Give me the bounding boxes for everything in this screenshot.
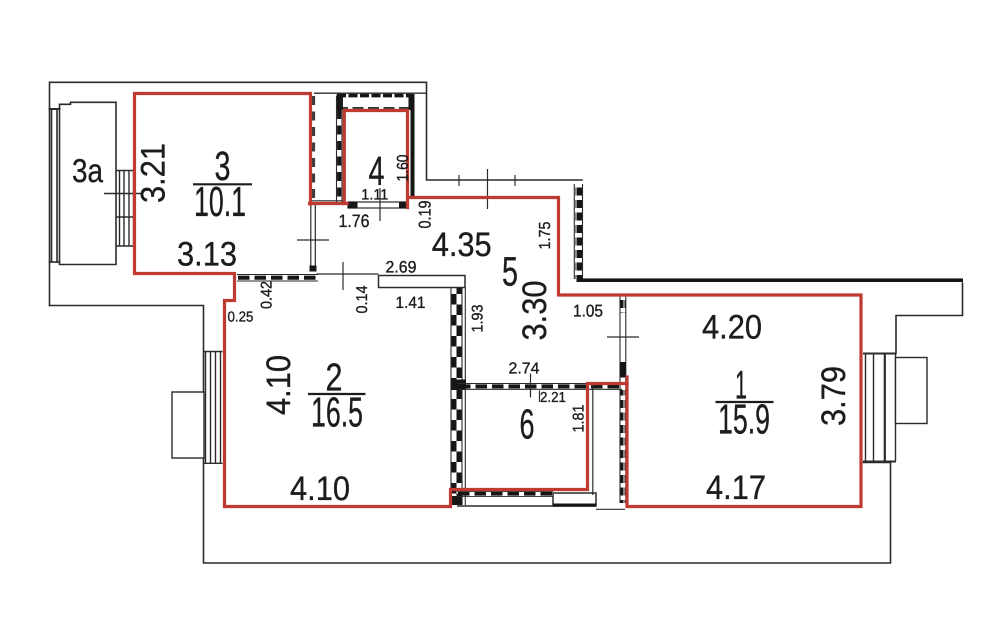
right wall window of room1	[863, 354, 927, 462]
svg-text:4.35: 4.35	[432, 226, 492, 264]
svg-text:1.75: 1.75	[537, 221, 554, 249]
hatched column left of room4	[337, 95, 344, 204]
svg-text:2.74: 2.74	[509, 361, 540, 378]
svg-text:0.42: 0.42	[258, 281, 275, 309]
dashed wall top of room2	[237, 275, 318, 282]
RED outlines	[135, 94, 862, 507]
svg-text:3a: 3a	[72, 152, 104, 189]
svg-text:2.69: 2.69	[386, 258, 417, 276]
checker wall between room2 and room6	[451, 288, 466, 506]
svg-text:4.10: 4.10	[290, 470, 350, 508]
svg-text:3.30: 3.30	[516, 281, 554, 341]
window balcony-room3	[104, 171, 143, 247]
room6 top dashed wall	[458, 384, 622, 390]
svg-text:1.76: 1.76	[339, 211, 370, 231]
room6 bottom threshold box	[553, 493, 596, 507]
balcony outer window double line	[51, 109, 53, 262]
svg-text:15.9: 15.9	[718, 395, 770, 442]
svg-text:3.21: 3.21	[135, 143, 173, 203]
1.41 opening rect	[379, 276, 466, 288]
connector under hatch to room4	[310, 202, 348, 205]
svg-text:1.41: 1.41	[396, 294, 426, 312]
svg-text:1.60: 1.60	[395, 154, 412, 181]
dimension ticks	[297, 169, 540, 402]
balcony 3a outline	[50, 102, 117, 264]
svg-text:3.13: 3.13	[177, 236, 237, 274]
svg-text:1.81: 1.81	[570, 405, 587, 433]
room 3	[135, 94, 628, 507]
svg-text:4.10: 4.10	[260, 355, 298, 415]
corridor and room1 big loop	[408, 198, 862, 507]
black wall right of room4	[411, 94, 415, 196]
thick top wall of right section	[577, 278, 964, 282]
outer boundary left lower	[50, 306, 891, 564]
room6 bottom dashed wall	[457, 492, 625, 510]
top right jog	[896, 283, 963, 354]
svg-text:2.21: 2.21	[540, 390, 566, 406]
svg-text:6: 6	[520, 401, 535, 448]
wall lines right of room3	[310, 93, 428, 274]
hatch column between room6 nook and room1	[620, 296, 626, 503]
svg-text:4.17: 4.17	[706, 469, 766, 507]
top bar above room4	[337, 95, 415, 111]
short hatch bit below room1 top line	[607, 296, 639, 337]
svg-text:16.5: 16.5	[311, 388, 363, 435]
step bottom right	[864, 462, 891, 464]
svg-text:0.25: 0.25	[228, 310, 254, 326]
svg-text:10.1: 10.1	[194, 178, 246, 225]
hatched wall right of corridor	[574, 184, 582, 279]
room4 threshold	[348, 202, 406, 209]
left wall window of room2	[172, 352, 223, 464]
svg-text:0.19: 0.19	[416, 201, 435, 229]
svg-text:1.93: 1.93	[469, 305, 486, 333]
svg-text:1.11: 1.11	[361, 186, 388, 203]
svg-text:4.20: 4.20	[702, 309, 762, 347]
room 4	[344, 111, 407, 208]
svg-text:1.05: 1.05	[573, 302, 603, 321]
svg-text:3.79: 3.79	[815, 366, 853, 426]
thin wall line right of room6	[592, 385, 594, 495]
outer boundary top	[50, 82, 583, 305]
svg-text:0.14: 0.14	[354, 285, 371, 313]
